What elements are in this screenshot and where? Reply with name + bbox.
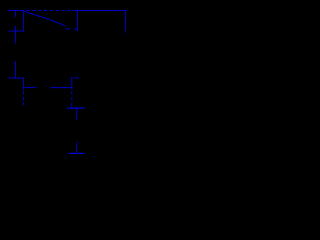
switch S1 right post bbox=[77, 11, 79, 32]
wire: top rail left segment bbox=[8, 10, 24, 12]
wire: ground lead bbox=[76, 144, 78, 153]
capacitor C1 top plate bbox=[67, 108, 85, 109]
switch S1 blade tail dash 2 bbox=[74, 28, 78, 30]
wire: mid post vertical solid bbox=[71, 78, 73, 89]
wire: capacitor C1 bottom lead bbox=[76, 109, 78, 119]
wire: top rail right segment bbox=[76, 10, 126, 12]
wire: horizontal from resistor R1 right lead bbox=[50, 87, 72, 89]
wire: dashed mid vertical down to capacitor bbox=[71, 91, 73, 106]
wire: right drop fading tail bbox=[125, 30, 126, 32]
wire: lower horizontal bar bbox=[9, 77, 24, 79]
wire: right drop from rail corner bbox=[125, 11, 127, 31]
wire: dashed left vertical below T bbox=[23, 91, 25, 105]
wire: vertical from node A down to bar bbox=[23, 11, 25, 32]
wire: dashed stub right of mid post bbox=[71, 77, 73, 79]
wire: dashed top rail (switch closed position) bbox=[27, 10, 76, 12]
wire: stub from rail into component column bbox=[15, 11, 17, 18]
wire: column segment above lower bar bbox=[15, 61, 17, 78]
wire: column segment between components bbox=[15, 26, 17, 44]
wire: horizontal bar below node A bbox=[9, 30, 24, 32]
switch S1 blade tail dash 1 bbox=[66, 28, 70, 30]
wire: ground lead fading head bbox=[76, 140, 77, 144]
wire: left vertical drop to T junction bbox=[23, 78, 25, 90]
wire: horizontal to resistor R1 left lead bbox=[24, 87, 37, 89]
node: dim lead of invisible source V1 bbox=[124, 33, 126, 34]
wire: capacitor lead fading tail bbox=[76, 119, 77, 121]
switch S1 blade (open, diagonal) bbox=[24, 11, 65, 26]
wire: dashed stub segment 2 bbox=[74, 77, 78, 79]
ground symbol bar bbox=[69, 153, 85, 154]
